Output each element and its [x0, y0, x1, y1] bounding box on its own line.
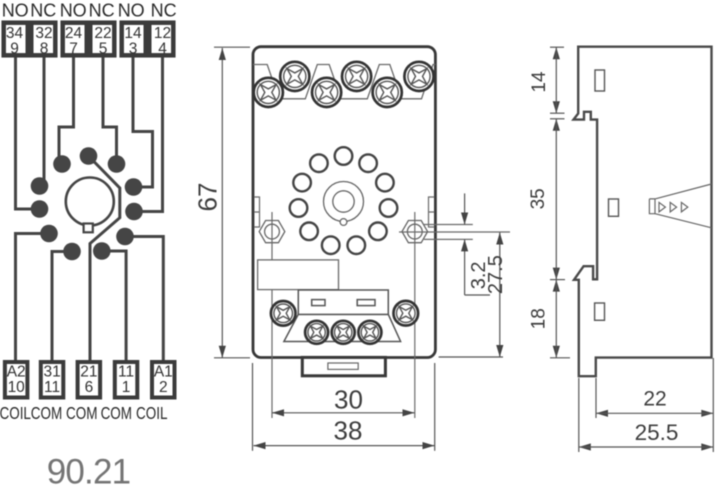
svg-text:25.5: 25.5: [635, 420, 679, 445]
svg-text:COM: COM: [66, 404, 97, 423]
svg-text:COM: COM: [31, 404, 62, 423]
svg-text:NC: NC: [151, 1, 177, 21]
svg-text:90.21: 90.21: [47, 453, 131, 485]
svg-text:A2: A2: [7, 364, 26, 381]
svg-text:35: 35: [528, 188, 549, 209]
svg-text:14: 14: [529, 71, 550, 93]
svg-text:8: 8: [40, 41, 49, 58]
svg-text:NO: NO: [118, 1, 145, 21]
svg-text:5: 5: [99, 41, 108, 58]
svg-text:NC: NC: [89, 1, 115, 21]
svg-text:38: 38: [334, 415, 363, 445]
svg-text:34: 34: [6, 25, 24, 42]
svg-text:2: 2: [159, 379, 168, 396]
svg-text:24: 24: [65, 25, 83, 42]
svg-text:NC: NC: [30, 1, 56, 21]
svg-text:NO: NO: [2, 1, 29, 21]
svg-text:31: 31: [43, 364, 60, 381]
svg-text:21: 21: [80, 364, 97, 381]
svg-text:10: 10: [8, 379, 26, 396]
svg-text:30: 30: [334, 385, 363, 415]
svg-text:COIL: COIL: [136, 404, 168, 423]
svg-text:7: 7: [69, 41, 78, 58]
svg-text:22: 22: [643, 388, 666, 411]
svg-text:6: 6: [85, 379, 94, 396]
svg-text:11: 11: [118, 364, 134, 381]
svg-text:A1: A1: [154, 364, 173, 381]
svg-text:4: 4: [158, 41, 167, 58]
svg-text:COIL: COIL: [0, 404, 31, 423]
svg-text:12: 12: [154, 25, 171, 42]
svg-text:22: 22: [94, 25, 111, 42]
svg-text:NO: NO: [60, 1, 87, 21]
svg-text:14: 14: [124, 25, 142, 42]
svg-text:1: 1: [122, 379, 131, 396]
svg-text:32: 32: [35, 25, 52, 42]
svg-text:67: 67: [193, 183, 223, 212]
svg-text:3: 3: [129, 41, 138, 58]
svg-text:COM: COM: [101, 404, 132, 423]
svg-text:11: 11: [44, 379, 60, 396]
svg-text:9: 9: [10, 41, 19, 58]
svg-text:18: 18: [529, 308, 550, 329]
svg-text:27.5: 27.5: [485, 255, 507, 294]
